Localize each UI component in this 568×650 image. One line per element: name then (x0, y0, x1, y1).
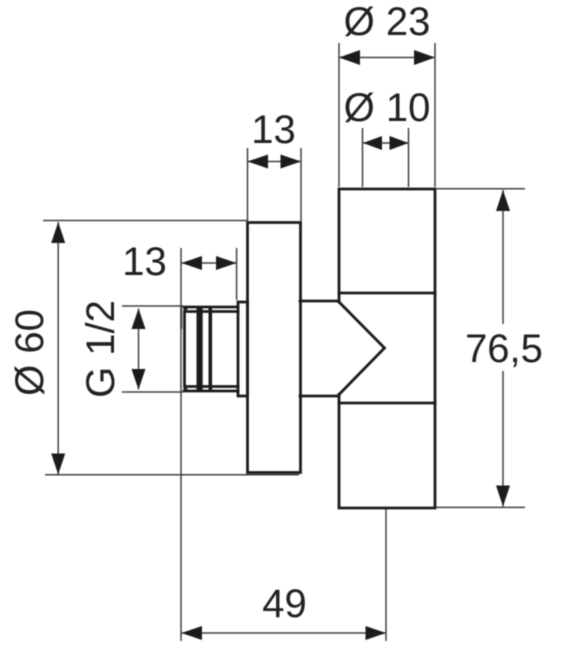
dimension Ø60 line (57, 222, 59, 475)
dimension Ø60 label (8, 309, 52, 396)
svg-text:49: 49 (262, 582, 307, 626)
inlet cone chevron (339, 302, 385, 395)
thread G1/2 inner crest bottom line (187, 385, 238, 388)
spout pipe top edge (300, 300, 339, 303)
dimension 13 flange extension line right (300, 148, 302, 221)
dimension G1/2 extension line bottom (122, 391, 183, 393)
dimension Ø23 label (344, 0, 431, 44)
collar between thread and flange (238, 302, 248, 396)
thread run-out chamfer line (180, 307, 182, 329)
thread G1/2 inner crest top line (187, 310, 238, 313)
dimension Ø10 arrow right (390, 136, 409, 150)
shared extension line left (13 thread / 49) (180, 248, 182, 641)
dimension G1/2 line (138, 309, 140, 390)
dimension G1/2 arrow bottom (132, 369, 146, 390)
dimension Ø60 extension line top (43, 220, 247, 222)
thread ridge bar A (197, 306, 203, 392)
dimension 76,5 line upper segment (502, 190, 504, 324)
dimension Ø23 arrow left (339, 50, 360, 65)
dimension Ø10 extension line left (362, 128, 364, 187)
dimension 49 line (181, 632, 386, 634)
dimension 13 thread label (122, 240, 167, 284)
dimension 76,5 arrow bottom (496, 486, 510, 507)
dimension G1/2 extension line top (122, 305, 183, 307)
svg-text:G 1/2: G 1/2 (79, 300, 123, 398)
valve body outline (339, 189, 435, 508)
thread ridge bar B (209, 306, 213, 392)
dimension 49 extension line right (385, 509, 387, 641)
dimension 76,5 arrow top (496, 190, 510, 211)
dimension 13 thread line (181, 262, 237, 264)
dimension Ø10 label (344, 86, 431, 130)
dimension G1/2 arrow top (132, 309, 146, 330)
dimension 13 flange arrow right (281, 155, 302, 169)
dimension Ø23 arrow right (414, 50, 435, 65)
dimension 49 label (262, 582, 307, 626)
dimension 13 thread arrow left (182, 256, 203, 270)
spout pipe bottom edge (300, 395, 339, 398)
dimension 49 arrow left (182, 626, 203, 640)
svg-text:Ø 60: Ø 60 (8, 309, 52, 396)
wall flange (248, 223, 301, 473)
thread G1/2 left end edge (185, 309, 187, 390)
svg-text:13: 13 (251, 108, 296, 152)
dimension Ø60 arrow bottom (51, 454, 65, 475)
thread G1/2 outer bottom line (184, 390, 238, 393)
dimension 49 arrow right (366, 626, 387, 640)
dimension Ø23 extension line left (338, 43, 340, 187)
body lower division line (339, 402, 435, 405)
svg-text:13: 13 (122, 240, 167, 284)
dimension 13 flange arrow left (248, 155, 269, 169)
dimension 13 flange extension line left (247, 148, 249, 221)
dimension Ø60 extension line bottom (45, 474, 299, 476)
dimension G1/2 label (79, 300, 123, 398)
dimension 76,5 extension line bottom (436, 506, 525, 508)
dimension Ø10 arrow left (363, 136, 382, 150)
svg-text:76,5: 76,5 (465, 327, 543, 371)
dimension 13 thread arrow right (216, 256, 237, 270)
dimension Ø23 extension line right (434, 43, 436, 187)
dimension 76,5 line lower segment (502, 371, 504, 507)
thread G1/2 outer top line (184, 306, 238, 309)
dimension Ø60 arrow top (51, 222, 65, 243)
svg-text:Ø 23: Ø 23 (344, 0, 431, 44)
dimension 13 flange label (251, 108, 296, 152)
dimension 13 flange line (248, 161, 302, 163)
dimension Ø10 line (363, 142, 409, 144)
dimension 13 thread extension line right (236, 248, 238, 300)
body upper division line (339, 292, 435, 295)
dimension 76,5 label (465, 327, 543, 371)
dimension 76,5 extension line top (436, 188, 525, 190)
dimension Ø10 extension line right (408, 128, 410, 187)
dimension Ø23 line (339, 57, 435, 59)
svg-text:Ø 10: Ø 10 (344, 86, 431, 130)
